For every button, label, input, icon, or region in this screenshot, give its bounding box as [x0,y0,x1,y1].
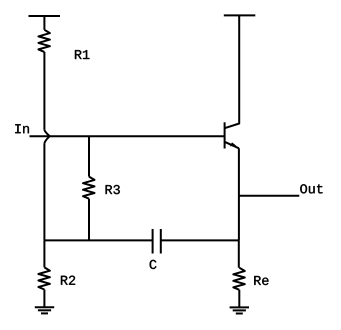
wire: lower node left segment [44,239,152,241]
resistor R3 [83,177,95,199]
label In [15,124,29,133]
transistor Q1 emitter arrow [230,142,237,146]
wire: emitter down through Out node to lower node [238,148,240,240]
wire: lower node right segment [161,239,239,241]
label R2 [61,276,75,285]
wire: left rail stub to R1 top [43,16,45,30]
label R3 [106,185,120,194]
wire: Re bottom lead to ground [238,290,240,308]
wire: R3 bottom lead to lower node [88,199,90,241]
ground (right, below Re) [230,307,249,313]
power rail VCC right [224,14,256,16]
power rail VCC left [29,15,61,17]
resistor Re [233,268,245,290]
capacitor C right plate [160,229,162,254]
label Re [254,276,268,285]
label R1 [75,50,89,59]
wire: R2 top lead [43,240,45,267]
resistor R2 [38,267,50,289]
wire: R1 bottom down to hop [43,52,45,130]
wire: hop bottom down to lower node [43,143,45,240]
wire hop (crossover of R1-R2 branch over In wire) [44,130,49,144]
wire: In to transistor base [30,135,225,137]
label Out [300,184,322,193]
wire: collector up to right rail [225,15,240,128]
label C [150,260,157,269]
resistor R1 [38,30,50,52]
wire: Out stub [239,195,299,197]
wire: R3 top lead from In wire [88,136,90,176]
transistor Q1 emitter diagonal [225,142,239,149]
wire: R2 bottom lead to ground [43,290,45,308]
capacitor C left plate [152,229,154,254]
transistor Q1 base bar [224,122,226,148]
ground (left, below R2) [35,307,54,313]
wire: Re top lead [238,240,240,267]
